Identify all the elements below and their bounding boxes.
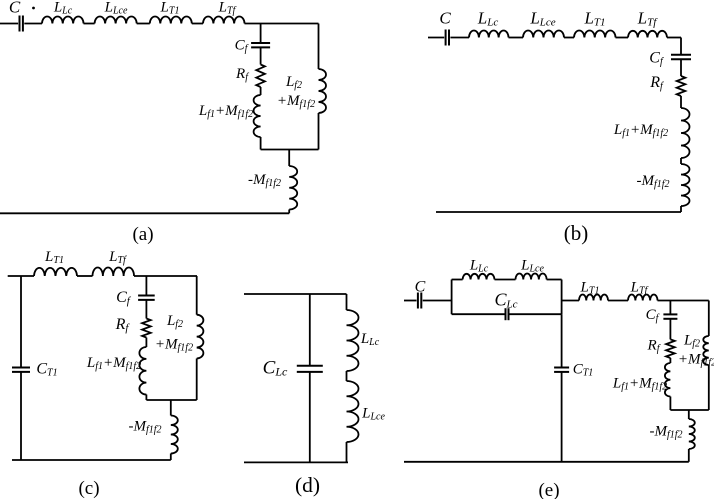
- inductor -M_f1f2 (c): [171, 416, 178, 454]
- wire (a) L_f1 to bar: [260, 137, 262, 150]
- svg-text:(e): (e): [538, 480, 559, 499]
- wire (a) bar to -M coil: [288, 150, 290, 167]
- wire (c) C_T1 to bottom: [20, 372, 22, 460]
- wire (e) R_f to L_f1: [669, 358, 671, 363]
- resistor R_f (e): [666, 339, 675, 358]
- wire (b) bottom return: [436, 211, 681, 213]
- wire (e) bar to -M coil: [688, 410, 690, 419]
- wire (a) R_f to L_f1: [260, 87, 262, 95]
- wire (e) C_T1 branch bottom: [561, 372, 563, 462]
- svg-text:(b): (b): [564, 221, 589, 245]
- wire (c) bottom return: [12, 459, 171, 461]
- wire (a) node to C_f: [260, 24, 262, 44]
- inductor L_Tf (c): [93, 268, 135, 277]
- capacitor C_f (e): [663, 313, 677, 315]
- capacitor C_f (b): [671, 54, 691, 56]
- inductor L_Lc (d): [347, 310, 359, 371]
- wire (b) L_Lc to L_Lce: [509, 37, 524, 39]
- wire (a) -M coil to corner: [288, 210, 290, 214]
- wire (d) top: [244, 293, 347, 295]
- wire (c) left down to C_T1: [20, 276, 22, 368]
- wire (e) right branch top: [708, 301, 710, 337]
- wire (c) right branch bottom: [196, 359, 198, 401]
- svg-text:(a): (a): [132, 224, 153, 245]
- capacitor C_T1 (c): [12, 367, 30, 369]
- wire (e) C_T1 branch top: [561, 314, 563, 367]
- wire (e) right branch bottom: [708, 365, 710, 410]
- wire (e) block bottom left: [452, 313, 506, 315]
- wire (e) node to C_f: [669, 301, 671, 315]
- wire (a) parallel bottom bar: [261, 149, 319, 151]
- capacitor C_f (c): [138, 295, 155, 297]
- resistor R_f (a): [256, 65, 265, 88]
- wire (b) C to L_Lc: [450, 37, 469, 39]
- capacitor C_Lc (d): [297, 365, 323, 367]
- wire (e) C to block: [423, 300, 452, 302]
- wire (c) R_f to L_f1: [145, 338, 147, 348]
- wire (e) block left edge: [451, 280, 453, 315]
- wire (c) L_T1 to L_Tf: [77, 275, 93, 277]
- wire (e) C_f to R_f: [669, 319, 671, 340]
- svg-text:C: C: [415, 279, 426, 296]
- inductor L_Tf (e): [628, 295, 658, 301]
- wire (a) bottom return: [0, 212, 289, 214]
- inductor L_Lc (a): [42, 16, 84, 23]
- inductor L_f1+M_f1f2 (a): [254, 95, 261, 137]
- wire (b) R_f to L_f1: [680, 96, 682, 108]
- capacitor C (b): [445, 30, 447, 46]
- wire (a) C to L_Lc: [24, 23, 42, 25]
- wire (d) right top: [346, 294, 348, 310]
- wire (c) top right: [134, 275, 197, 277]
- wire (b) top right: [667, 37, 681, 39]
- svg-text:(d): (d): [295, 473, 320, 497]
- wire (b) C_f to R_f: [680, 59, 682, 76]
- inductor L_Lce (d): [347, 381, 359, 442]
- inductor L_f1+M_f1f2 (b): [681, 108, 690, 158]
- inductor L_Lce (e): [516, 274, 547, 280]
- capacitor C (e): [417, 293, 419, 309]
- wire (a) right branch top: [318, 24, 320, 70]
- wire (c) L_f1 to bar: [145, 395, 147, 401]
- resistor R_f (b): [677, 76, 686, 96]
- wire (c) -M coil to corner: [170, 454, 172, 461]
- wire (d) between coils: [346, 371, 348, 381]
- wire (d) bottom: [244, 461, 348, 463]
- inductor L_Tf (b): [628, 31, 667, 38]
- wire (d) mid down to C_Lc: [309, 294, 311, 366]
- wire (e) L_f1 to bar: [669, 397, 671, 411]
- wire (a) right branch bottom: [318, 113, 320, 150]
- wire (e) block right edge: [561, 280, 563, 315]
- inductor L_Lc (b): [469, 30, 509, 37]
- wire (c) right branch top: [196, 276, 198, 315]
- wire (b) L_f1 to -M: [680, 158, 682, 164]
- wire (e) block to L_T1: [562, 300, 579, 302]
- inductor L_T1 (c): [34, 268, 77, 276]
- inductor L_Lc (e): [463, 274, 495, 280]
- capacitor C (a): [19, 16, 21, 32]
- inductor L_Lce (b): [523, 30, 564, 37]
- wire (e) -M coil to corner: [688, 449, 690, 462]
- inductor L_Lce (a): [95, 16, 137, 23]
- wire (c) node to C_f: [145, 276, 147, 296]
- wire (b) -M to corner: [680, 206, 682, 212]
- wire (d) coil to bottom: [346, 442, 348, 462]
- inductor -M_f1f2 (a): [289, 166, 297, 210]
- wire (b) L_T1 to L_Tf: [616, 37, 629, 39]
- svg-text:C: C: [439, 9, 451, 28]
- wire (a) top right: [245, 23, 319, 25]
- wire (e) block top right: [547, 279, 562, 281]
- wire (a) C_f to R_f: [260, 47, 262, 64]
- inductor L_f2+M_f1f2 (c): [197, 315, 204, 359]
- wire (b) input left: [428, 37, 444, 39]
- wire (e) block top mid: [495, 279, 516, 281]
- dot mark (a): [32, 7, 35, 10]
- svg-text:(c): (c): [78, 478, 99, 499]
- inductor L_T1 (b): [574, 30, 616, 37]
- wire (e) block top left: [452, 279, 463, 281]
- svg-text:C: C: [9, 0, 21, 17]
- wire (a) L_Lc to L_Lce: [84, 23, 95, 25]
- inductor -M_f1f2 (b): [681, 164, 690, 206]
- inductor L_f1+M_f1f2 (c): [139, 347, 146, 395]
- wire (a) input left: [0, 23, 18, 25]
- resistor R_f (c): [142, 319, 151, 338]
- wire (a) L_Lce to L_T1: [137, 23, 150, 25]
- inductor L_T1 (e): [579, 294, 608, 300]
- wire (e) block bottom right: [509, 313, 562, 315]
- capacitor C_T1 (e): [554, 367, 569, 369]
- wire (a) L_T1 to L_Tf: [192, 23, 203, 25]
- inductor L_f1+M_f1f2 (e): [665, 363, 671, 397]
- wire (e) L_T1 to L_Tf: [608, 300, 628, 302]
- wire (c) top stub: [8, 275, 34, 277]
- wire (c) parallel bottom bar: [146, 399, 196, 401]
- wire (e) bottom return: [404, 461, 689, 463]
- wire (d) C_Lc to bottom: [309, 372, 311, 463]
- wire (b) L_Lce to L_T1: [564, 37, 574, 39]
- wire (e) to right corner: [658, 300, 709, 302]
- inductor L_Tf (a): [203, 16, 245, 23]
- capacitor C_Lc (e): [505, 308, 507, 320]
- wire (e) input left: [404, 300, 417, 302]
- wire (c) bar to -M coil: [170, 400, 172, 416]
- capacitor C_f (a): [251, 42, 270, 44]
- inductor L_T1 (a): [150, 17, 192, 24]
- wire (b) corner to C_f: [680, 38, 682, 55]
- wire (e) parallel bottom bar: [670, 409, 708, 411]
- inductor L_f2+M_f1f2 (a): [319, 69, 327, 113]
- inductor L_f2+M_f1f2 (e): [703, 336, 709, 365]
- wire (c) C_f to R_f: [145, 300, 147, 319]
- inductor -M_f1f2 (e): [689, 419, 695, 449]
